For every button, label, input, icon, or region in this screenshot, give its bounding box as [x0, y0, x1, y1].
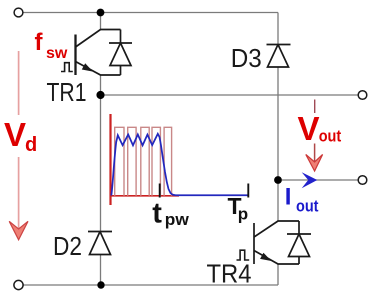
diode TR4 antiparallel [287, 234, 311, 257]
node junction top [97, 9, 105, 17]
Iout arrow [302, 172, 318, 188]
node junction TR1 emitter [96, 91, 104, 99]
waveform axis red [109, 114, 111, 205]
svg-text:V: V [4, 116, 26, 153]
wire middle output [101, 94, 359, 96]
wire node to D2 [100, 95, 102, 285]
Vd arrowhead [9, 221, 28, 240]
transistor TR1 emitter arrow [83, 64, 92, 70]
terminal top-left [14, 8, 23, 17]
svg-text:p: p [238, 205, 248, 224]
svg-text:D2: D2 [53, 233, 82, 261]
svg-text:D3: D3 [231, 45, 262, 73]
waveform baseline red [111, 195, 180, 197]
TR1 gate pulse glyph [61, 63, 73, 72]
terminal right upper [358, 91, 367, 100]
terminal bottom-left [14, 280, 23, 289]
svg-text:TR1: TR1 [47, 79, 87, 107]
svg-text:out: out [319, 128, 342, 146]
tick Tp [247, 184, 249, 198]
svg-text:sw: sw [46, 45, 68, 62]
transistor Q TR1 [76, 30, 121, 76]
wire TR4 emitter drop [277, 264, 279, 285]
wire top rail [23, 12, 278, 14]
Vout arrow shaft [314, 144, 316, 162]
svg-text:f: f [35, 29, 44, 56]
terminal right lower [358, 176, 367, 185]
diode D2 [88, 232, 112, 255]
svg-text:pw: pw [165, 210, 190, 229]
node junction bottom [97, 281, 104, 288]
waveform blue current curve [111, 134, 248, 196]
svg-text:TR4: TR4 [207, 261, 252, 289]
transistor Q TR4 [254, 221, 299, 264]
tick tpw [159, 184, 161, 198]
transistor TR4 emitter arrow [261, 254, 270, 260]
diode D3 [267, 45, 291, 68]
diode TR1 antiparallel [109, 43, 132, 66]
wire TR1 emitter to node [100, 75, 102, 95]
wire bottom rail [23, 284, 278, 286]
svg-text:t: t [152, 198, 162, 230]
Vout arrowhead [306, 155, 323, 172]
waveform pulse train [115, 127, 172, 196]
wire TR1 collector drop [100, 13, 102, 30]
wire right vertical rail [277, 13, 279, 222]
svg-text:d: d [25, 134, 37, 156]
TR4 gate pulse glyph [237, 250, 250, 260]
svg-text:I: I [285, 184, 292, 211]
svg-text:V: V [298, 110, 320, 147]
Vout dashed line [314, 100, 316, 114]
Vd arrow line [18, 51, 20, 228]
node junction Iout [274, 176, 282, 184]
svg-text:out: out [296, 198, 319, 216]
wire lower output [282, 179, 358, 181]
